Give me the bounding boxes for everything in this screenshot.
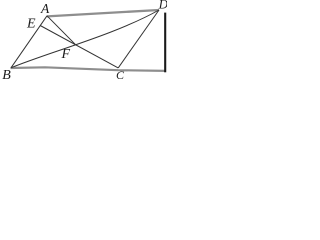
svg-text:A: A <box>40 1 50 16</box>
side AB <box>11 16 47 68</box>
svg-text:C: C <box>116 68 125 82</box>
segment AF <box>47 16 75 45</box>
svg-text:E: E <box>26 17 36 32</box>
side AD (top, thick grey) <box>47 10 159 16</box>
diagonal BD (slightly bowed as in scan) <box>11 10 159 68</box>
right border bar <box>164 13 166 73</box>
svg-text:D: D <box>158 0 167 12</box>
svg-text:B: B <box>2 68 11 83</box>
svg-text:F: F <box>61 47 71 62</box>
segment EC <box>40 26 118 68</box>
side CD <box>118 10 159 68</box>
bottom rule through BC (thick grey, slight sag) <box>11 67 167 71</box>
